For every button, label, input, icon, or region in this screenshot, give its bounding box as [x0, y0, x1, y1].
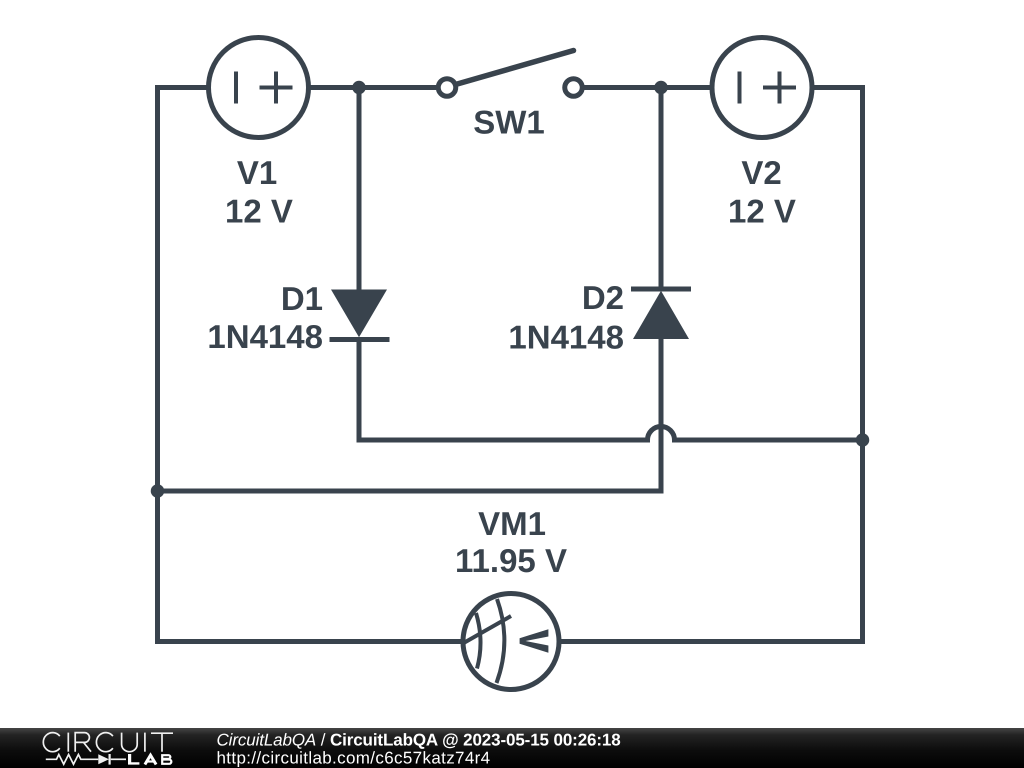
- node: junction dot right rail / D1 return: [856, 433, 870, 447]
- wire: V1 right terminal to switch left: [309, 85, 437, 90]
- svg-text:http://circuitlab.com/c6c57kat: http://circuitlab.com/c6c57katz74r4: [217, 749, 491, 768]
- diode D1: [330, 290, 390, 340]
- voltmeter V glyph: [520, 629, 549, 653]
- node: junction dot SW1/V2/D2: [654, 81, 668, 95]
- label VM1 value: [455, 505, 567, 579]
- svg-text:D1: D1: [281, 280, 323, 317]
- logo diode: [98, 754, 109, 764]
- logo LAB: [128, 754, 171, 765]
- wire: switch right to V2 left terminal: [583, 85, 713, 90]
- svg-text:V2: V2: [741, 154, 781, 191]
- svg-text:1N4148: 1N4148: [207, 318, 323, 355]
- voltage source V2: [712, 38, 812, 138]
- svg-text:12 V: 12 V: [225, 193, 293, 230]
- svg-text:D2: D2: [582, 279, 624, 316]
- wire: node B down to D2 cathode: [659, 88, 664, 290]
- label V1 value: [225, 154, 293, 230]
- node: junction dot V1/SW1/D1: [352, 81, 366, 95]
- node: junction dot left rail / D2 return: [151, 484, 165, 498]
- wire: V2 right terminal to right rail down to voltmeter right: [560, 88, 863, 642]
- logo resistor zigzag: [46, 755, 99, 765]
- label D1 value: [207, 280, 323, 355]
- logo CIRCUIT letters: [43, 733, 173, 752]
- wire: V1 left terminal to left rail down to voltmeter left: [158, 88, 464, 642]
- svg-text:12 V: 12 V: [728, 193, 796, 230]
- voltage source V1: [209, 38, 309, 138]
- svg-text:CircuitLabQA / CircuitLabQA @: CircuitLabQA / CircuitLabQA @ 2023-05-15…: [217, 730, 621, 749]
- switch SW1: [438, 51, 582, 97]
- label V2 value: [728, 154, 796, 230]
- wire: D2 anode down and left to left rail: [158, 339, 662, 491]
- svg-text:SW1: SW1: [473, 104, 545, 141]
- wire: node A down to D1 anode: [357, 88, 362, 290]
- voltmeter VM1: [463, 594, 559, 690]
- wire: D1 cathode right with hop over D2 branch to right rail: [359, 340, 863, 441]
- svg-text:V1: V1: [237, 154, 277, 191]
- svg-text:VM1: VM1: [478, 505, 546, 542]
- label D2 value: [508, 279, 624, 356]
- footer bar: [0, 728, 1024, 768]
- svg-text:1N4148: 1N4148: [508, 319, 624, 356]
- svg-text:11.95 V: 11.95 V: [455, 542, 567, 579]
- diode D2: [631, 289, 691, 339]
